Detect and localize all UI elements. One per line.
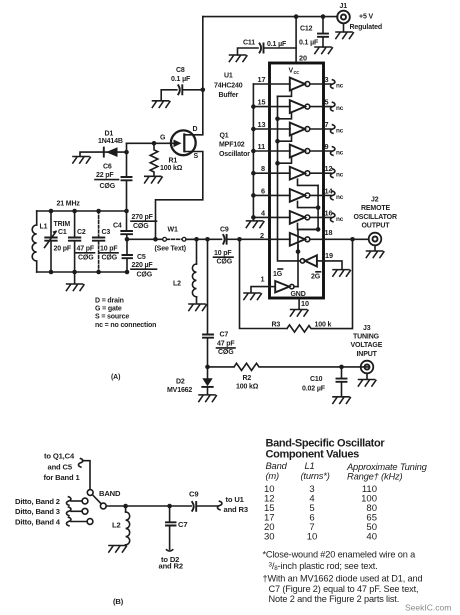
svg-text:for Band 1: for Band 1 [44,473,81,482]
svg-text:10: 10 [307,532,318,543]
svg-text:1: 1 [261,274,265,283]
svg-text:D: D [193,126,198,133]
table rows [264,484,377,543]
svg-text:cc: cc [294,70,300,76]
node R2 C10 junction [339,365,344,370]
wire tank bottom rail [37,271,127,273]
capacitor C12 [318,17,328,47]
svg-text:nc: nc [336,172,344,179]
svg-text:MV1662: MV1662 [167,387,192,394]
node top rail junction pin20 [294,14,299,19]
svg-text:S = source: S = source [95,314,129,321]
label D1 1N4148 [98,130,123,145]
label C8 [171,67,191,83]
svg-text:nc: nc [336,128,344,135]
label J2 REMOTE OSCILLATOR OUTPUT [354,196,397,229]
svg-text:C9: C9 [189,489,198,498]
svg-text:and R3: and R3 [224,505,248,514]
node C7 D2 R2 junction [205,365,210,370]
svg-text:(See Text): (See Text) [155,246,186,253]
svg-text:CØG: CØG [133,223,149,230]
svg-text:Oscillator: Oscillator [219,151,250,158]
svg-text:nc: nc [336,83,344,90]
label C10 0.02uF [302,376,326,393]
label C2 47pF COG [76,229,95,262]
svg-text:INPUT: INPUT [357,351,378,358]
label input pin numbers [258,75,267,240]
svg-text:C6: C6 [103,163,112,170]
label J3 TUNING VOLTAGE INPUT [351,325,383,358]
svg-text:40: 40 [366,532,377,543]
label 10pF COG [214,250,234,266]
svg-text:Regulated: Regulated [350,24,383,31]
wire C9 to U1 pin2 [240,238,269,240]
svg-text:REMOTE: REMOTE [361,205,391,212]
svg-text:S: S [194,153,199,160]
capacitor C4 [121,211,132,239]
svg-text:to U1: to U1 [226,495,245,504]
svg-text:7: 7 [325,120,329,129]
table headers [266,460,428,482]
label U1 74HC240 Buffer [214,73,243,100]
label output pin numbers [325,75,334,237]
capacitor C7 section B [166,506,176,551]
svg-text:Note 2 and the Figure 2 parts: Note 2 and the Figure 2 parts list. [269,594,400,604]
svg-text:U1: U1 [224,73,233,80]
ground pin10 [290,310,308,317]
svg-text:20: 20 [299,54,307,63]
label R1 100k [160,157,183,172]
wire drain segment to Q1 [185,90,203,135]
inductor L2 section B [126,506,130,545]
svg-text:C1: C1 [58,229,67,236]
switch band contact 2 [66,497,87,506]
op-amp U1 74HC240 box [270,63,324,298]
wire internal enable bus group1 right [298,179,319,286]
svg-text:C5: C5 [137,254,146,261]
capacitor C9 section B [192,502,196,511]
svg-text:TUNING: TUNING [353,334,380,341]
svg-text:20 pF: 20 pF [54,246,72,253]
wire buffer8 enable leg [297,245,299,251]
svg-text:11: 11 [258,142,266,151]
ground under L2 [189,304,207,311]
wire gate line [127,142,172,144]
label C12 [299,26,319,47]
svg-text:8: 8 [261,164,265,173]
wire section B main line [106,505,218,507]
switch band contact 4 [66,517,92,526]
svg-text:1N414B: 1N414B [98,138,123,145]
svg-text:C3: C3 [102,229,111,236]
svg-text:C9: C9 [220,226,229,233]
capacitor C11 [238,44,297,56]
ground left of D1 [73,157,91,164]
buffer 1G [270,281,298,292]
switch band contact 1 [87,490,93,496]
ground under R1 [145,176,163,183]
capacitor C7 [203,239,213,367]
svg-text:Buffer: Buffer [219,92,239,99]
ground pin1 [244,293,262,300]
connector J2 [369,233,382,246]
svg-text:0.02 µF: 0.02 µF [302,386,326,393]
capacitor C6 [122,143,132,211]
node L2B junction [123,504,128,509]
svg-text:C11: C11 [243,39,255,46]
svg-text:VOLTAGE: VOLTAGE [351,342,383,349]
svg-text:5: 5 [325,98,329,107]
ground under L2B [109,546,127,553]
svg-text:nc = no connection: nc = no connection [95,322,156,329]
svg-text:nc: nc [336,216,344,223]
svg-text:Range† (kHz): Range† (kHz) [347,471,403,482]
svg-text:nc: nc [336,105,344,112]
capacitor C8 [161,85,203,100]
ground under C11 [229,55,247,62]
svg-text:(turns*): (turns*) [301,470,330,481]
svg-text:G: G [160,135,166,142]
svg-text:L2: L2 [173,280,181,287]
capacitor C3 dashed [93,211,104,272]
capacitor C5 [123,239,133,272]
legend D G S nc [95,298,156,329]
capacitor C2 [69,211,80,272]
connector J3 [361,361,374,374]
svg-text:C8: C8 [176,67,185,74]
svg-text:3: 3 [325,75,329,84]
svg-text:D2: D2 [176,378,185,385]
svg-text:15: 15 [258,98,266,107]
wire input pin lines [253,84,290,239]
svg-text:13: 13 [258,120,266,129]
inductor L1 [32,211,37,272]
svg-text:C10: C10 [310,376,323,383]
wire output pin lines [310,84,369,239]
svg-text:C12: C12 [300,26,313,33]
svg-text:J3: J3 [363,325,371,332]
svg-text:Q1: Q1 [220,132,229,139]
switch arm [92,495,101,504]
ground under J1 [336,23,354,38]
svg-text:L1: L1 [40,223,48,230]
connector J1 [337,11,350,24]
node gate R1 junction [152,141,157,146]
capacitor C9 [223,235,239,244]
svg-text:R1: R1 [169,157,178,164]
label D2 MV1662 [167,378,192,394]
svg-text:47 pF: 47 pF [217,341,235,348]
svg-text:12: 12 [325,164,333,173]
svg-text:BAND: BAND [99,489,121,498]
transistor Q1 MPF102 [171,130,196,155]
label 1G [273,269,283,278]
svg-text:0.1 µF: 0.1 µF [267,41,287,48]
diode D2 MV1662 [202,367,212,395]
node top rail junction C12 [321,14,326,19]
switch pole [100,503,106,509]
svg-text:C7: C7 [220,332,229,339]
resistor R2 [208,363,342,370]
svg-text:Component Values: Component Values [266,449,360,461]
jumper W1 [163,237,197,241]
svg-text:R2: R2 [243,375,252,382]
resistor R3 [240,239,353,332]
svg-text:+5 V: +5 V [359,13,373,20]
svg-text:D1: D1 [105,130,114,137]
svg-text:220 µF: 220 µF [132,262,154,269]
svg-text:(A): (A) [111,374,120,381]
label C6 22pF COG [95,163,119,190]
svg-text:and R2: and R2 [159,561,183,570]
svg-text:10: 10 [301,299,309,308]
svg-text:nc: nc [336,194,344,201]
svg-text:21 MHz: 21 MHz [57,200,81,207]
ground under J3 [358,373,376,386]
label Vcc [289,67,300,76]
inverter 2G [300,255,323,266]
wire input bus external [252,84,254,221]
svg-text:19: 19 [325,251,333,260]
svg-text:10 pF: 10 pF [214,250,232,257]
table title [266,438,386,461]
wire main oscillator line [127,238,197,240]
svg-text:SeekIC.com: SeekIC.com [405,603,451,613]
wire source path [156,152,203,240]
svg-text:CØG: CØG [102,255,118,262]
diode D1 [80,147,127,157]
svg-text:C7: C7 [178,520,187,529]
inductor L2 [192,239,196,303]
wire band1 hook [78,459,90,490]
wire pin1 stub [251,287,269,293]
svg-text:C7 (Figure 2) equal to 47 pF.: C7 (Figure 2) equal to 47 pF. See text, [269,584,419,594]
label C5 220uF COG [131,254,157,278]
svg-text:47 pF: 47 pF [77,246,95,253]
svg-text:0.1 µF: 0.1 µF [299,40,319,47]
svg-text:W1: W1 [168,227,178,234]
wire R2 to J3 [342,366,369,368]
svg-text:Ditto, Band 2: Ditto, Band 2 [15,497,60,506]
label C11 [243,39,287,48]
svg-text:J1: J1 [340,3,348,10]
svg-text:(m): (m) [266,470,280,481]
label to D2 and R2 [159,555,183,570]
svg-text:G = gate: G = gate [95,306,122,313]
label +5V Regulated [350,13,383,31]
svg-text:9: 9 [325,142,329,151]
label R3 100k [272,321,332,328]
svg-text:J2: J2 [371,196,379,203]
node C9 R3 junction [237,237,242,242]
node C7B junction [167,504,172,509]
node tank rail dots [49,209,130,275]
svg-text:1G: 1G [273,271,283,278]
ground under D2 [199,395,217,402]
ground under J2 [366,245,384,257]
wire pin19 [323,261,342,269]
label C3 10pF COG [100,229,119,262]
wire pin10 stub [298,299,300,310]
svg-text:TRIM: TRIM [54,221,71,228]
svg-text:Ditto, Band 4: Ditto, Band 4 [15,517,61,526]
svg-text:OSCILLATOR: OSCILLATOR [354,214,397,221]
label 2G [311,272,321,281]
svg-text:*Close-wound #20 enameled wire: *Close-wound #20 enameled wire on a [263,550,417,560]
svg-text:nc: nc [336,150,344,157]
svg-text:17: 17 [258,75,266,84]
svg-text:C4: C4 [113,222,122,229]
label TRIM C1 20pF [54,221,72,253]
svg-text:22 pF: 22 pF [96,172,114,179]
ground under C8 [152,101,170,108]
ground under C12 [315,47,333,54]
wire drain vertical from rail [202,17,204,90]
svg-text:100 kΩ: 100 kΩ [236,384,259,391]
node D1 junction [124,150,129,155]
label C7 47pF COG [217,332,236,356]
label C4 270pF COG [113,214,157,230]
svg-text:R3: R3 [272,321,281,328]
svg-text:D = drain: D = drain [95,298,124,305]
svg-text:18: 18 [325,228,333,237]
wire internal enable bus group2 left [278,90,301,261]
label Q1 pins D G S [160,126,199,160]
svg-text:30: 30 [264,532,275,543]
svg-text:10 pF: 10 pF [100,246,118,253]
node main line dots [125,237,210,242]
svg-text:6: 6 [261,186,265,195]
svg-text:2: 2 [260,231,264,240]
svg-text:and C5: and C5 [48,462,73,471]
ground tank bottom [66,272,84,291]
svg-text:GND: GND [291,291,306,298]
svg-text:CØG: CØG [218,349,234,356]
ground pin19 [333,270,351,277]
label Q1 MPF102 Oscillator [219,132,250,157]
wire tank top rail [37,210,127,212]
svg-text:†With an MV1662 diode used at: †With an MV1662 diode used at D1, and [263,574,423,584]
label to Q1 C4 and C5 for Band 1 [44,452,81,482]
svg-text:0.1 µF: 0.1 µF [171,76,191,83]
label to U1 and R3 [224,495,248,514]
resistor R1 [150,143,158,176]
svg-text:CØG: CØG [100,183,116,190]
svg-text:to Q1,C4: to Q1,C4 [44,452,75,461]
svg-text:CØG: CØG [137,271,153,278]
nc marks and labels [330,80,343,223]
ground under C10 [333,397,351,404]
buffer gates 1-8 [290,78,310,246]
wire +5V top rail [203,16,338,18]
svg-text:OUTPUT: OUTPUT [362,222,391,229]
wire pin20 stub [295,17,297,62]
node input bus dots [251,104,256,219]
svg-text:100 kΩ: 100 kΩ [160,165,183,172]
node internal bus group2 dots [275,117,280,166]
node C8 junction [201,88,206,93]
ground input bus [246,221,264,228]
svg-text:2G: 2G [311,274,321,281]
svg-text:CØG: CØG [217,259,233,266]
switch band contact 3 [66,507,87,516]
capacitor C10 [337,367,347,397]
node internal bus group1 dots [296,205,321,254]
node pin18 J2 R3 junction [350,237,355,242]
svg-text:C2: C2 [77,229,86,236]
svg-text:MPF102: MPF102 [219,142,245,149]
svg-text:3/8-inch plastic rod; see text: 3/8-inch plastic rod; see text. [269,561,378,572]
label R2 100k [236,375,259,391]
label W1 See Text [155,227,186,253]
svg-text:270 pF: 270 pF [132,214,154,221]
wire to U1 hook [217,501,221,510]
svg-text:L2: L2 [112,520,121,529]
svg-text:CØG: CØG [78,255,94,262]
svg-text:100 k: 100 k [315,321,332,328]
svg-text:Ditto, Band 3: Ditto, Band 3 [15,507,60,516]
wire main line to C9 [197,238,222,240]
table footnotes [263,550,423,604]
svg-text:(B): (B) [113,597,124,606]
capacitor C1 trimmer [45,211,57,272]
svg-text:74HC240: 74HC240 [214,83,243,90]
svg-text:16: 16 [325,208,333,217]
